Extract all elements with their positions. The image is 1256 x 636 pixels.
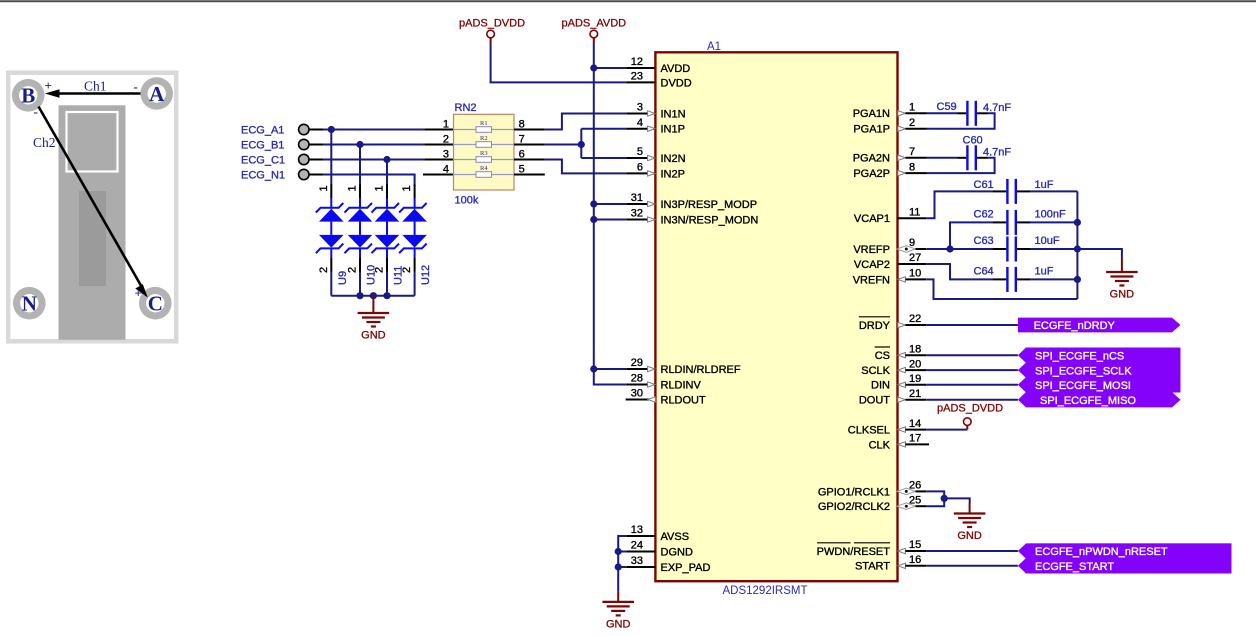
svg-text:pADS_AVDD: pADS_AVDD bbox=[562, 18, 627, 30]
pin 4 IN1P bbox=[637, 117, 685, 136]
pin 23 DVDD bbox=[631, 71, 692, 90]
wire RN2 right stub pin 6 bbox=[514, 159, 545, 161]
junction C62 right bbox=[1074, 219, 1081, 226]
wire pADS_AVDD vertical bbox=[594, 44, 627, 385]
svg-text:2: 2 bbox=[374, 267, 386, 273]
wire to U10 bbox=[359, 145, 361, 185]
junction ground bus x=373.4 bbox=[370, 292, 377, 299]
pin 21 DOUT bbox=[859, 388, 921, 407]
net flag ECGFE_nDRDY bbox=[1018, 318, 1181, 333]
wire SPI_ECGFE_MISO bbox=[905, 399, 926, 401]
svg-text:+: + bbox=[45, 78, 52, 93]
svg-text:30: 30 bbox=[631, 388, 643, 400]
svg-text:R3: R3 bbox=[480, 150, 488, 157]
svg-text:-: - bbox=[134, 79, 138, 94]
junction C64 right bbox=[1074, 276, 1081, 283]
svg-text:ECG_C1: ECG_C1 bbox=[241, 155, 285, 167]
svg-text:pADS_DVDD: pADS_DVDD bbox=[937, 403, 1003, 415]
svg-text:1uF: 1uF bbox=[1035, 179, 1054, 191]
wire C63 to GND bbox=[1077, 249, 1122, 258]
capacitor C59 bbox=[966, 101, 968, 126]
pin 15 PWDN/RESET bbox=[817, 539, 922, 558]
wire ECG_B1 bbox=[323, 144, 424, 146]
svg-text:8: 8 bbox=[909, 161, 915, 173]
connector pin ECG_A1 bbox=[299, 124, 309, 134]
pin 22 DRDY bbox=[859, 313, 921, 332]
svg-text:ECG_A1: ECG_A1 bbox=[241, 125, 284, 137]
svg-text:A: A bbox=[149, 82, 165, 106]
svg-text:7: 7 bbox=[909, 146, 915, 158]
capacitor C64 bbox=[1006, 267, 1008, 292]
junction ground bus x=387 bbox=[383, 292, 390, 299]
svg-text:13: 13 bbox=[631, 524, 643, 536]
capacitor C63 bbox=[1006, 237, 1008, 262]
wire to U11 bbox=[386, 160, 388, 185]
wire GPIO1/GPIO2 bbox=[915, 490, 926, 492]
capacitor C62 bbox=[1006, 210, 1008, 235]
svg-text:27: 27 bbox=[909, 252, 921, 264]
svg-text:PGA2N: PGA2N bbox=[853, 153, 890, 165]
pin 16 START bbox=[855, 554, 921, 573]
svg-text:33: 33 bbox=[631, 555, 643, 567]
wire PGA1N to C59 bbox=[905, 112, 926, 114]
ground symbol at diodes bbox=[372, 296, 374, 313]
wire pADS_DVDD to DVDD bbox=[491, 44, 627, 83]
svg-text:START: START bbox=[855, 561, 890, 573]
svg-text:GND: GND bbox=[1110, 289, 1135, 301]
svg-text:5: 5 bbox=[637, 146, 643, 158]
junction ground bus x=360 bbox=[356, 292, 363, 299]
svg-text:18: 18 bbox=[909, 343, 921, 355]
electrode A bbox=[140, 77, 173, 110]
svg-text:DIN: DIN bbox=[871, 380, 890, 392]
connector pin ECG_B1 bbox=[299, 139, 309, 149]
wire IN1P/IN2N branch bbox=[580, 129, 582, 158]
transient diode U10 bbox=[345, 184, 373, 296]
svg-text:1: 1 bbox=[401, 185, 413, 191]
wire C59 to PGA1P bbox=[977, 112, 988, 114]
wire to U9 bbox=[330, 130, 332, 185]
junction AVDD bbox=[590, 64, 597, 71]
torso body shape bbox=[59, 105, 126, 339]
wire SPI_ECGFE_nCS bbox=[905, 354, 926, 356]
svg-text:GND: GND bbox=[957, 530, 982, 542]
wire EXP_PAD bbox=[626, 566, 655, 568]
junction EXP_PAD bbox=[615, 563, 622, 570]
junction IN3P bbox=[590, 200, 597, 207]
wire C62 branch bbox=[950, 222, 993, 249]
svg-text:100k: 100k bbox=[455, 195, 479, 207]
svg-text:DGND: DGND bbox=[661, 546, 693, 558]
svg-text:VCAP2: VCAP2 bbox=[854, 259, 890, 271]
wire RLDIN bbox=[594, 368, 627, 370]
svg-text:C62: C62 bbox=[974, 209, 994, 221]
svg-text:100nF: 100nF bbox=[1035, 209, 1066, 221]
electrode B bbox=[12, 79, 45, 112]
junction RN2 pin7 bbox=[578, 141, 585, 148]
svg-text:ECG_N1: ECG_N1 bbox=[241, 170, 285, 182]
pin 11 VCAP1 bbox=[854, 207, 921, 226]
junction ECG_B1/U10 bbox=[356, 141, 363, 148]
electrode placement diagram frame bbox=[8, 73, 176, 342]
svg-text:Ch2: Ch2 bbox=[33, 135, 56, 150]
pin 20 SCLK bbox=[861, 358, 921, 377]
svg-text:CS: CS bbox=[875, 350, 890, 362]
svg-text:RLDINV: RLDINV bbox=[661, 379, 702, 391]
transient diode U12 bbox=[399, 184, 427, 296]
pin 26 GPIO1/RCLK1 bbox=[818, 480, 921, 499]
svg-text:14: 14 bbox=[909, 418, 921, 430]
svg-text:CLKSEL: CLKSEL bbox=[848, 425, 890, 437]
svg-text:IN2N: IN2N bbox=[661, 153, 686, 165]
Ch2 arrow (B to C) bbox=[39, 107, 142, 287]
pin 3 IN1N bbox=[637, 102, 686, 121]
svg-text:23: 23 bbox=[631, 71, 643, 83]
resistor network RN2 body bbox=[454, 114, 515, 190]
connector pin ECG_N1 bbox=[299, 169, 309, 179]
ground symbol right bbox=[1121, 258, 1123, 272]
svg-text:1uF: 1uF bbox=[1035, 266, 1054, 278]
pin 27 VCAP2 bbox=[854, 252, 921, 271]
transient diode U9 bbox=[316, 184, 344, 296]
svg-text:DOUT: DOUT bbox=[859, 395, 890, 407]
pin 13 AVSS bbox=[631, 524, 689, 543]
junction ECG_C1/U11 bbox=[383, 156, 390, 163]
svg-text:2: 2 bbox=[443, 133, 449, 145]
svg-text:24: 24 bbox=[631, 540, 643, 552]
ground symbol at GPIO bbox=[969, 504, 971, 514]
net flag ECGFE_START bbox=[1018, 558, 1232, 573]
svg-text:1: 1 bbox=[443, 118, 449, 130]
svg-text:SPI_ECGFE_nCS: SPI_ECGFE_nCS bbox=[1035, 350, 1124, 362]
pin 32 IN3N/RESP_MODN bbox=[631, 208, 759, 227]
svg-text:IN2P: IN2P bbox=[661, 168, 685, 180]
resistor R4 bbox=[454, 165, 515, 177]
svg-text:2: 2 bbox=[909, 117, 915, 129]
wire RN2 pin4 stub bbox=[423, 174, 454, 176]
connector pin ECG_C1 bbox=[299, 154, 309, 164]
wire RN2 right stub pin 5 bbox=[514, 174, 545, 176]
inner dark rectangle bbox=[79, 191, 106, 286]
svg-text:1: 1 bbox=[374, 185, 386, 191]
svg-text:31: 31 bbox=[631, 192, 643, 204]
svg-text:RLDOUT: RLDOUT bbox=[661, 394, 707, 406]
svg-text:20: 20 bbox=[909, 358, 921, 370]
capacitor C60 bbox=[966, 145, 968, 170]
wire RN2 pin7 to junction bbox=[545, 144, 582, 146]
wire ECG_N1 bbox=[323, 175, 414, 185]
wire SPI_ECGFE_MOSI bbox=[905, 384, 926, 386]
svg-text:SPI_ECGFE_SCLK: SPI_ECGFE_SCLK bbox=[1035, 365, 1132, 377]
pin 8 PGA2P bbox=[853, 161, 915, 180]
svg-text:C63: C63 bbox=[974, 235, 994, 247]
svg-text:IN3P/RESP_MODP: IN3P/RESP_MODP bbox=[661, 199, 758, 211]
svg-text:3: 3 bbox=[443, 148, 449, 160]
junction VREFP bbox=[946, 245, 953, 252]
svg-text:SCLK: SCLK bbox=[861, 365, 890, 377]
svg-text:GPIO2/RCLK2: GPIO2/RCLK2 bbox=[818, 501, 890, 513]
svg-text:10uF: 10uF bbox=[1035, 235, 1060, 247]
svg-text:SPI_ECGFE_MISO: SPI_ECGFE_MISO bbox=[1040, 395, 1136, 407]
electrode N bbox=[13, 287, 46, 320]
svg-text:ECGFE_nPWDN_nRESET: ECGFE_nPWDN_nRESET bbox=[1035, 546, 1168, 558]
junction C63 right bbox=[1074, 245, 1081, 252]
wire VREFN bbox=[905, 278, 926, 280]
wire C60 to PGA2P bbox=[977, 157, 988, 159]
svg-text:1: 1 bbox=[347, 185, 359, 191]
pin 28 RLDINV bbox=[631, 373, 702, 392]
junction GPIO bbox=[941, 495, 948, 502]
pin 17 CLK bbox=[869, 433, 922, 452]
svg-text:+: + bbox=[135, 286, 142, 301]
svg-text:IN3N/RESP_MODN: IN3N/RESP_MODN bbox=[661, 214, 759, 226]
wire PGA2N to C60 bbox=[905, 157, 926, 159]
pin 19 DIN bbox=[871, 373, 921, 392]
pin 33 EXP_PAD bbox=[631, 555, 711, 574]
svg-text:C61: C61 bbox=[974, 179, 994, 191]
svg-text:VREFN: VREFN bbox=[853, 274, 890, 286]
svg-text:C64: C64 bbox=[974, 266, 994, 278]
wire RN2 right stub pin 8 bbox=[514, 129, 545, 131]
svg-text:21: 21 bbox=[909, 388, 921, 400]
svg-text:U12: U12 bbox=[420, 265, 432, 285]
pin 12 AVDD bbox=[631, 56, 691, 75]
wire RN2 pin6 to IN2P bbox=[545, 160, 627, 174]
svg-text:19: 19 bbox=[909, 373, 921, 385]
wire GPIO to GND bbox=[944, 498, 970, 503]
svg-text:1: 1 bbox=[318, 185, 330, 191]
svg-text:4.7nF: 4.7nF bbox=[983, 102, 1011, 114]
wire ECG_C1 stub bbox=[309, 159, 323, 161]
wire ECG_A1 bbox=[323, 129, 424, 131]
svg-text:PWDN/RESET: PWDN/RESET bbox=[817, 546, 891, 558]
svg-text:N: N bbox=[22, 292, 37, 316]
wire SPI_ECGFE_SCLK bbox=[905, 369, 926, 371]
wire VREFP to C63 bbox=[915, 248, 926, 250]
svg-text:6: 6 bbox=[637, 162, 643, 174]
junction DGND bbox=[615, 548, 622, 555]
junction RLDIN bbox=[590, 365, 597, 372]
resistor R1 bbox=[454, 120, 515, 132]
svg-text:VREFP: VREFP bbox=[853, 244, 890, 256]
svg-text:IN1P: IN1P bbox=[661, 124, 685, 136]
wire VCAP1 to C61 bbox=[898, 217, 927, 219]
svg-text:CLK: CLK bbox=[869, 439, 891, 451]
svg-text:GND: GND bbox=[606, 618, 631, 630]
svg-text:DRDY: DRDY bbox=[859, 320, 891, 332]
svg-text:1: 1 bbox=[909, 102, 915, 114]
wire PWDN/RESET bbox=[905, 550, 926, 552]
svg-text:C60: C60 bbox=[963, 135, 983, 147]
svg-text:EXP_PAD: EXP_PAD bbox=[661, 562, 711, 574]
wire AVSS bbox=[626, 535, 655, 537]
wire ECG_A1 stub bbox=[309, 129, 323, 131]
wire ECG_B1 stub bbox=[309, 144, 323, 146]
svg-text:11: 11 bbox=[909, 207, 920, 219]
svg-text:R2: R2 bbox=[480, 135, 488, 142]
svg-text:ECGFE_START: ECGFE_START bbox=[1035, 561, 1114, 573]
svg-text:VCAP1: VCAP1 bbox=[854, 213, 890, 225]
pin 31 IN3P/RESP_MODP bbox=[631, 192, 757, 211]
wire ECG_N1 stub bbox=[309, 174, 323, 176]
svg-text:2: 2 bbox=[347, 267, 359, 273]
svg-text:28: 28 bbox=[631, 373, 643, 385]
svg-text:R1: R1 bbox=[480, 120, 488, 127]
sheet top border line bbox=[0, 0, 1256, 2]
wire DRDY bbox=[905, 324, 926, 326]
op-amp/afe IC A1 body bbox=[655, 52, 897, 581]
svg-text:RLDIN/RLDREF: RLDIN/RLDREF bbox=[661, 364, 741, 376]
wire CLK stub bbox=[905, 443, 929, 445]
pin 18 CS bbox=[875, 343, 922, 362]
svg-text:ADS1292IRSMT: ADS1292IRSMT bbox=[722, 585, 807, 597]
net flag SPI_ECGFE_MISO bbox=[1018, 392, 1181, 407]
svg-text:C: C bbox=[148, 292, 163, 316]
svg-text:GPIO1/RCLK1: GPIO1/RCLK1 bbox=[818, 486, 890, 498]
pin 2 PGA1P bbox=[853, 117, 915, 136]
SPI flag block background bbox=[1029, 348, 1180, 393]
wire IN3N bbox=[594, 219, 627, 221]
svg-text:3: 3 bbox=[637, 102, 643, 114]
wire START bbox=[905, 565, 926, 567]
svg-text:PGA2P: PGA2P bbox=[853, 168, 890, 180]
pin 14 CLKSEL bbox=[848, 418, 921, 437]
wire CLKSEL bbox=[905, 429, 926, 431]
pin 25 GPIO2/RCLK2 bbox=[818, 494, 921, 513]
wire cap bus vertical bbox=[1076, 191, 1078, 299]
resistor R2 bbox=[454, 135, 515, 147]
svg-text:15: 15 bbox=[909, 539, 921, 551]
pin 29 RLDIN/RLDREF bbox=[631, 357, 741, 376]
svg-text:4.7nF: 4.7nF bbox=[983, 147, 1011, 159]
svg-text:IN1N: IN1N bbox=[661, 108, 686, 120]
pin 1 PGA1N bbox=[853, 102, 915, 121]
svg-text:22: 22 bbox=[909, 313, 921, 325]
wire RLDOUT stub bbox=[626, 399, 656, 401]
Ch1 arrow (A to B) bbox=[57, 92, 141, 95]
wire RN2 right stub pin 7 bbox=[514, 144, 545, 146]
svg-text:ECG_B1: ECG_B1 bbox=[241, 140, 284, 152]
svg-text:17: 17 bbox=[909, 433, 921, 445]
svg-text:29: 29 bbox=[631, 357, 643, 369]
junction IN3N bbox=[590, 216, 597, 223]
pin 5 IN2N bbox=[637, 146, 686, 165]
svg-text:RN2: RN2 bbox=[455, 102, 477, 114]
electrode C bbox=[139, 287, 172, 320]
head square with white border bbox=[67, 112, 118, 172]
svg-text:C59: C59 bbox=[937, 101, 957, 113]
wire DGND bbox=[626, 551, 655, 553]
net flag SPI_ECGFE_MOSI bbox=[1018, 377, 1181, 392]
svg-text:10: 10 bbox=[909, 268, 921, 280]
svg-text:pADS_DVDD: pADS_DVDD bbox=[459, 18, 525, 30]
svg-text:SPI_ECGFE_MOSI: SPI_ECGFE_MOSI bbox=[1035, 380, 1131, 392]
svg-text:GND: GND bbox=[361, 330, 386, 342]
PWDN/START flag block background bbox=[1029, 543, 1231, 573]
transient diode U11 bbox=[372, 184, 400, 296]
svg-text:PGA1N: PGA1N bbox=[853, 108, 890, 120]
svg-text:2: 2 bbox=[318, 267, 330, 273]
svg-text:Ch1: Ch1 bbox=[84, 79, 107, 94]
svg-text:2: 2 bbox=[401, 267, 413, 273]
capacitor C61 bbox=[1006, 179, 1008, 204]
svg-text:A1: A1 bbox=[707, 41, 721, 53]
wire IN3P bbox=[594, 203, 627, 205]
svg-text:12: 12 bbox=[631, 56, 643, 68]
svg-text:DVDD: DVDD bbox=[661, 77, 692, 89]
pin 30 RLDOUT bbox=[631, 388, 706, 407]
pin 9 VREFP bbox=[853, 237, 915, 256]
pin 7 PGA2N bbox=[853, 146, 915, 165]
pin 6 IN2P bbox=[637, 162, 685, 181]
pin 24 DGND bbox=[631, 540, 693, 559]
net flag SPI_ECGFE_SCLK bbox=[1018, 362, 1181, 377]
pin 10 VREFN bbox=[853, 268, 922, 287]
resistor R3 bbox=[454, 150, 515, 162]
net flag ECGFE_nPWDN_nRESET bbox=[1018, 543, 1232, 558]
svg-text:-: - bbox=[34, 104, 38, 119]
svg-text:16: 16 bbox=[909, 554, 921, 566]
wire ECG_C1 bbox=[323, 159, 424, 161]
svg-text:ECGFE_nDRDY: ECGFE_nDRDY bbox=[1034, 320, 1116, 332]
svg-text:R4: R4 bbox=[480, 165, 488, 172]
ground symbol bottom bbox=[617, 592, 619, 602]
svg-text:32: 32 bbox=[631, 208, 643, 220]
svg-text:4: 4 bbox=[637, 117, 643, 129]
svg-text:AVSS: AVSS bbox=[661, 531, 690, 543]
wire RN2 pin8 to IN1N bbox=[545, 114, 627, 130]
junction ECG_A1/U9 bbox=[328, 126, 335, 133]
svg-text:AVDD: AVDD bbox=[661, 63, 691, 75]
wire VCAP2 to C64 bbox=[898, 263, 927, 265]
net flag SPI_ECGFE_nCS bbox=[1018, 348, 1181, 363]
power port pADS_DVDD at CLKSEL bbox=[966, 425, 968, 429]
wire diode ground bus bbox=[331, 295, 414, 297]
svg-text:4: 4 bbox=[443, 163, 449, 175]
wire AVDD bbox=[594, 67, 627, 69]
svg-text:PGA1P: PGA1P bbox=[853, 124, 890, 136]
